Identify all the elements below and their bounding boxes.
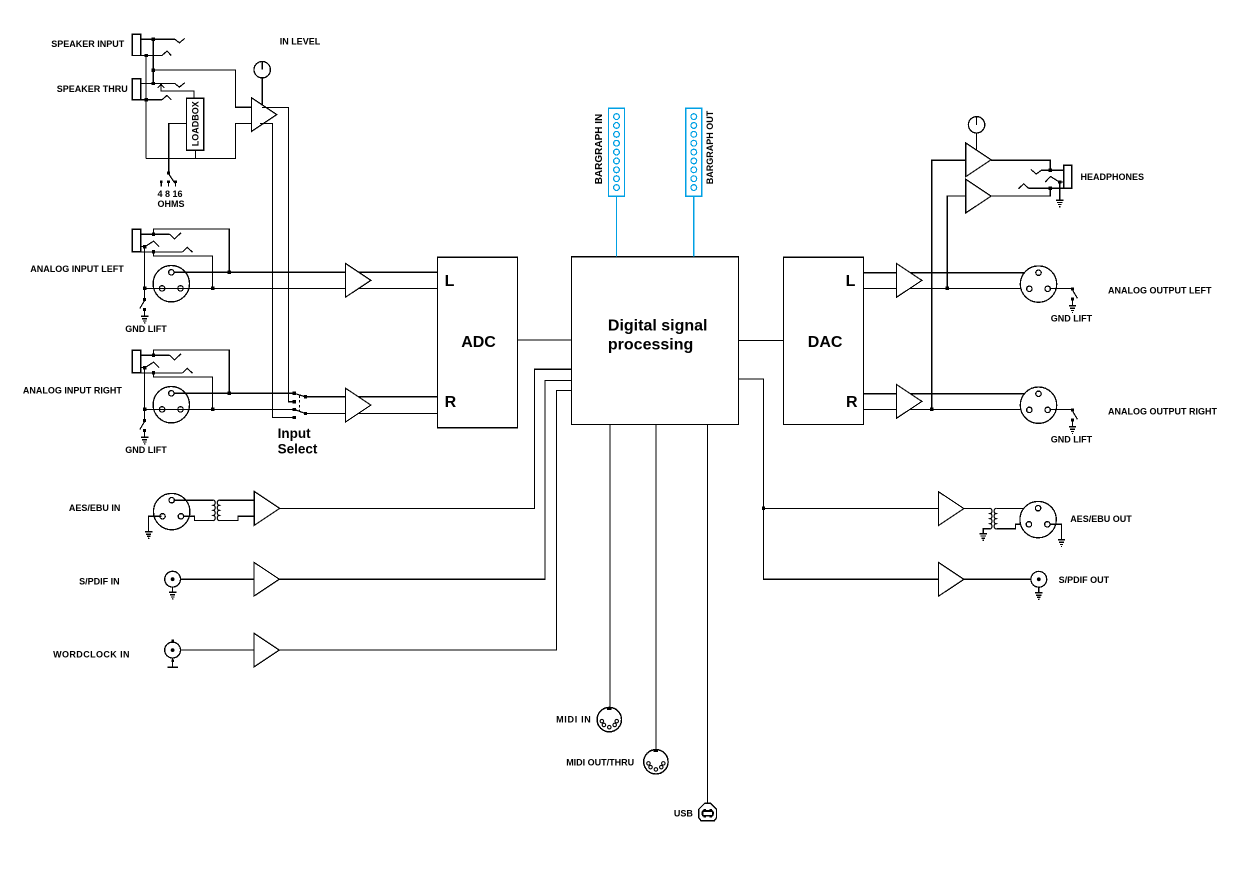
svg-text:Input: Input: [278, 426, 311, 441]
svg-text:OHMS: OHMS: [158, 199, 185, 209]
svg-text:BARGRAPH OUT: BARGRAPH OUT: [705, 110, 715, 184]
svg-text:GND LIFT: GND LIFT: [1051, 314, 1093, 324]
svg-text:ANALOG INPUT RIGHT: ANALOG INPUT RIGHT: [23, 385, 122, 395]
svg-text:Select: Select: [278, 441, 318, 456]
svg-text:R: R: [846, 394, 858, 411]
svg-text:AES/EBU IN: AES/EBU IN: [69, 503, 121, 513]
svg-text:AES/EBU OUT: AES/EBU OUT: [1070, 514, 1132, 524]
svg-text:L: L: [846, 273, 856, 290]
svg-text:MIDI OUT/THRU: MIDI OUT/THRU: [566, 757, 634, 767]
svg-text:HEADPHONES: HEADPHONES: [1081, 172, 1145, 182]
svg-text:ADC: ADC: [461, 334, 496, 351]
svg-text:ANALOG OUTPUT LEFT: ANALOG OUTPUT LEFT: [1108, 286, 1212, 296]
svg-text:S/PDIF IN: S/PDIF IN: [79, 576, 120, 586]
svg-text:DAC: DAC: [808, 334, 843, 351]
svg-text:LOADBOX: LOADBOX: [190, 101, 200, 146]
svg-text:SPEAKER THRU: SPEAKER THRU: [57, 84, 128, 94]
svg-text:MIDI IN: MIDI IN: [556, 714, 591, 724]
svg-text:WORDCLOCK IN: WORDCLOCK IN: [53, 649, 130, 659]
svg-text:4 8 16: 4 8 16: [158, 189, 183, 199]
svg-text:USB: USB: [674, 809, 694, 819]
svg-text:ANALOG OUTPUT RIGHT: ANALOG OUTPUT RIGHT: [1108, 407, 1217, 417]
svg-text:GND LIFT: GND LIFT: [125, 324, 167, 334]
svg-text:GND LIFT: GND LIFT: [1051, 435, 1093, 445]
svg-text:R: R: [445, 394, 457, 411]
svg-text:BARGRAPH IN: BARGRAPH IN: [594, 114, 605, 185]
svg-text:S/PDIF OUT: S/PDIF OUT: [1059, 575, 1110, 585]
svg-text:Digital signalprocessing: Digital signalprocessing: [608, 318, 708, 354]
svg-text:SPEAKER INPUT: SPEAKER INPUT: [51, 39, 125, 49]
svg-text:GND LIFT: GND LIFT: [125, 445, 167, 455]
svg-text:L: L: [445, 273, 455, 290]
svg-text:ANALOG INPUT LEFT: ANALOG INPUT LEFT: [30, 264, 124, 274]
svg-text:IN LEVEL: IN LEVEL: [280, 36, 321, 46]
